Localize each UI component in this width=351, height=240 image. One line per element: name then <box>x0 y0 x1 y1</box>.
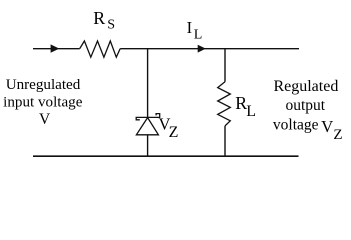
zener diode D1 cathode bar <box>136 114 160 120</box>
wire zener branch upper <box>147 49 149 118</box>
svg-text:Z: Z <box>333 127 342 143</box>
svg-text:output: output <box>285 97 325 114</box>
wire R_L branch lower <box>224 126 226 156</box>
wire R_L branch upper <box>224 49 226 82</box>
wire bottom <box>33 155 299 157</box>
resistor R1 (R_S) zigzag <box>80 41 121 57</box>
svg-text:Regulated: Regulated <box>273 78 338 95</box>
resistor R2 (R_L) zigzag <box>218 82 231 126</box>
svg-text:V: V <box>39 111 51 128</box>
svg-text:input voltage: input voltage <box>3 95 83 111</box>
svg-text:S: S <box>107 18 115 33</box>
wire top input segment <box>33 48 80 50</box>
I_L current arrowhead <box>198 45 206 53</box>
zener diode D1 triangle <box>136 118 158 135</box>
svg-text:voltage: voltage <box>273 116 319 133</box>
svg-text:Z: Z <box>169 124 179 141</box>
svg-text:I: I <box>187 18 193 37</box>
svg-text:R: R <box>93 8 105 28</box>
svg-text:L: L <box>194 27 203 42</box>
wire top middle segment <box>120 48 299 50</box>
svg-text:L: L <box>246 103 256 120</box>
wire zener branch lower <box>147 135 149 156</box>
svg-text:V: V <box>321 117 333 136</box>
svg-text:Unregulated: Unregulated <box>6 77 81 93</box>
input current arrowhead <box>51 44 60 52</box>
